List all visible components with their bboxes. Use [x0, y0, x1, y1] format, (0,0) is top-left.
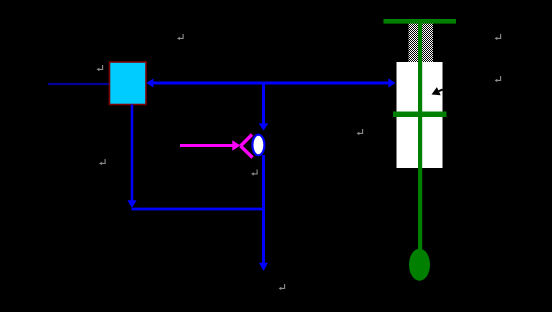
nozzle: magenta V lines: [241, 135, 253, 158]
wire: blue line below ellipse down to bottom arrow: [259, 155, 268, 271]
rod: green vertical rod: [418, 21, 422, 250]
support: green ceiling bar: [384, 19, 457, 24]
pilcrow b: [97, 65, 103, 71]
arrow: small black pointer in cylinder: [432, 87, 443, 95]
node: cyan summing box: [110, 62, 147, 105]
pilcrow a: [177, 34, 183, 40]
cylinder: white damper body: [397, 62, 443, 168]
wire: navy input line into summing box: [48, 83, 110, 85]
piston: green crossbar: [393, 112, 447, 118]
pilcrow d: [251, 170, 257, 176]
support: hatched fixed block: [409, 24, 433, 62]
node: white ellipse with blue ring: [252, 135, 264, 156]
wire: blue branch down to ellipse with arrowhead: [259, 82, 269, 131]
wire: blue line from box bottom down with arrowhead: [127, 105, 136, 209]
wire: horizontal blue line at bottom: [132, 208, 266, 211]
wire: blue double-headed arrow from box to actuator: [146, 78, 395, 87]
arrow: magenta actuator arrow: [180, 140, 240, 150]
pilcrow f: [495, 34, 501, 40]
pilcrow h: [279, 284, 285, 290]
pilcrow g: [495, 76, 501, 82]
pilcrow e: [357, 129, 363, 135]
pilcrow c: [99, 159, 105, 165]
mass: green ball: [409, 249, 430, 281]
